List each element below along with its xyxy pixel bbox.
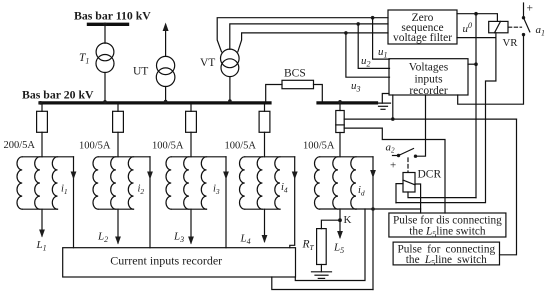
svg-text:K: K: [344, 214, 352, 226]
wire feeder5 tap2: [344, 128, 445, 213]
relay VR: [489, 21, 508, 32]
svg-text:the L5line switch: the L5line switch: [406, 254, 487, 268]
current transformer CT1: [17, 157, 74, 209]
wire u0 to VR top: [476, 14, 497, 22]
svg-text:Bas bar 110 kV: Bas bar 110 kV: [74, 9, 151, 23]
switch a1: [522, 16, 530, 36]
wire DCR bottom to u0: [408, 192, 476, 198]
node tap1 voltages junction: [391, 117, 395, 121]
node K: [338, 218, 342, 222]
svg-text:Voltages: Voltages: [409, 62, 449, 74]
arrow L1: [39, 230, 45, 238]
svg-text:+: +: [390, 159, 396, 171]
node bus1 left end: [39, 101, 43, 105]
wire a2 to voltages recorder: [416, 95, 426, 156]
svg-text:BCS: BCS: [284, 68, 306, 80]
fuse F1: [37, 111, 48, 132]
current transformer CT2: [93, 157, 150, 209]
arrow L4: [262, 235, 268, 243]
ground RT: [312, 272, 332, 279]
svg-text:VT: VT: [200, 57, 215, 69]
node id junction: [371, 207, 375, 211]
wire VT to bus: [229, 77, 231, 102]
wire feeder4 drop: [264, 104, 266, 111]
wire VT phase c: [238, 33, 388, 52]
svg-text:the L5line switch: the L5line switch: [409, 226, 486, 240]
wire id secondary: [372, 157, 374, 290]
wire tap1 down right side: [500, 119, 517, 255]
voltages inputs recorder box U2: [389, 59, 468, 97]
dashed link VR to a1: [509, 26, 522, 28]
transformer T1: [96, 43, 114, 73]
svg-text:voltage filter: voltage filter: [393, 32, 452, 44]
wire BCS left: [266, 85, 282, 102]
wire BCS right: [314, 85, 323, 102]
wire u0 upper stub: [457, 13, 476, 15]
zero sequence voltage filter box U1: [388, 10, 457, 44]
wire u3: [346, 33, 390, 77]
arrow id: [370, 170, 376, 178]
current inputs recorder box U3: [63, 248, 296, 277]
wire VR bottom to stub: [495, 33, 497, 38]
wire tap1 up to voltages recorder: [392, 95, 394, 119]
sensor feeder5: [336, 111, 344, 133]
ground voltages recorder: [376, 94, 391, 110]
transformer VT: [221, 49, 240, 76]
bus bar 20 kV section 2: [318, 101, 377, 104]
dashed link a2 to DCR: [407, 158, 409, 172]
node T1-bus junction: [103, 100, 107, 104]
svg-text:UT: UT: [133, 66, 148, 78]
arrow i2: [147, 172, 153, 180]
wire a1 top stub: [523, 3, 525, 17]
wire i1 secondary: [73, 157, 75, 248]
wire fuse1 to CT1: [41, 132, 43, 157]
wire fuse2 to CT2: [117, 132, 119, 157]
wire DCR left lead: [396, 184, 403, 203]
node VT-bus junction: [228, 99, 232, 103]
pulse box connect: [393, 242, 499, 267]
arrow i1: [71, 172, 77, 180]
bus bar 110 kV: [89, 23, 128, 26]
wire feeder2 drop: [117, 104, 119, 111]
arrow i4: [292, 172, 298, 180]
resistor RT: [317, 229, 327, 265]
wire i4 secondary: [290, 157, 295, 248]
wire u0 vertical: [475, 14, 477, 198]
wire L1 line: [41, 209, 43, 236]
wire u1: [373, 18, 390, 59]
node u0 junction: [474, 12, 478, 16]
wire i2 secondary: [149, 157, 151, 248]
voltage transformer UT arrow: [163, 23, 169, 57]
svg-text:Bas bar 20 kV: Bas bar 20 kV: [22, 88, 94, 102]
wire feeder3 drop: [190, 104, 192, 111]
svg-text:100/5A: 100/5A: [225, 141, 257, 152]
wire voltages box to u0 vertical: [468, 63, 476, 65]
node u1 tap: [371, 16, 375, 20]
pulse box disconnect: [389, 213, 506, 239]
transformer UT: [156, 56, 175, 86]
current transformer CT3: [166, 157, 226, 209]
wire VT phase a: [217, 18, 388, 52]
fuse F4: [259, 111, 270, 132]
svg-text:200/5A: 200/5A: [4, 140, 36, 151]
wire i3 secondary: [225, 157, 227, 248]
wire fuse4 to CT4: [264, 132, 266, 157]
relay DCR: [403, 173, 415, 193]
wire fuse5 to CT5: [339, 133, 341, 157]
wire recorder bottom to id secondary: [272, 277, 373, 290]
bus bar 20 kV section 1: [40, 101, 270, 104]
node T1-110kV junction: [103, 23, 107, 27]
svg-text:Current inputs recorder: Current inputs recorder: [110, 254, 222, 268]
svg-text:DCR: DCR: [418, 169, 442, 181]
fuse F3: [186, 111, 197, 132]
node UT-bus junction: [164, 100, 168, 104]
wire u0 lower stub: [457, 37, 496, 39]
wire recorder right to K circuit: [295, 209, 365, 281]
current transformer CT4: [240, 157, 295, 209]
arrow L3: [188, 237, 194, 245]
node u0 vertical junction: [474, 62, 478, 66]
arrow L2: [115, 237, 121, 245]
wire T1 primary: [104, 24, 106, 43]
svg-text:inputs: inputs: [414, 73, 443, 85]
svg-text:VR: VR: [503, 37, 519, 49]
svg-text:+: +: [527, 3, 534, 15]
wire fuse3 to CT3: [190, 132, 192, 157]
wire L5 primary: [339, 209, 341, 220]
wire L3 line: [190, 209, 192, 243]
wire T1 to bus: [104, 73, 106, 102]
fuse F2: [113, 111, 124, 132]
node feeder5-bus junction: [338, 100, 342, 104]
node u3 tap: [344, 31, 348, 35]
wire DCR right lead: [415, 184, 421, 213]
wire feeder5 tap1 (to recorder and pulse boxes): [344, 118, 516, 120]
wire L2 line: [117, 209, 119, 243]
wire VR bottom to DCR left: [396, 38, 496, 203]
svg-text:100/5A: 100/5A: [79, 141, 111, 152]
wire feeder5 drop: [339, 104, 341, 110]
wire K rail to DCR: [356, 208, 421, 210]
wire VT phase b: [230, 24, 388, 49]
node u2 tap: [356, 22, 360, 26]
current transformer CT5: [315, 157, 373, 209]
wire UT to bus: [165, 87, 167, 102]
svg-text:100/5A: 100/5A: [152, 141, 184, 152]
breaker BCS: [282, 80, 314, 88]
switch a2: [393, 149, 418, 158]
svg-text:recorder: recorder: [409, 85, 447, 97]
svg-text:100/5A: 100/5A: [303, 141, 335, 152]
wire a1 to voltages recorder: [458, 35, 524, 105]
wire u2: [358, 24, 389, 69]
wire K to RT: [321, 220, 340, 228]
arrow i3: [223, 172, 229, 180]
wire feeder1 drop: [41, 104, 43, 111]
wire RT to ground: [320, 265, 322, 272]
arrow L5: [337, 220, 343, 239]
wire L4 line: [264, 209, 266, 241]
